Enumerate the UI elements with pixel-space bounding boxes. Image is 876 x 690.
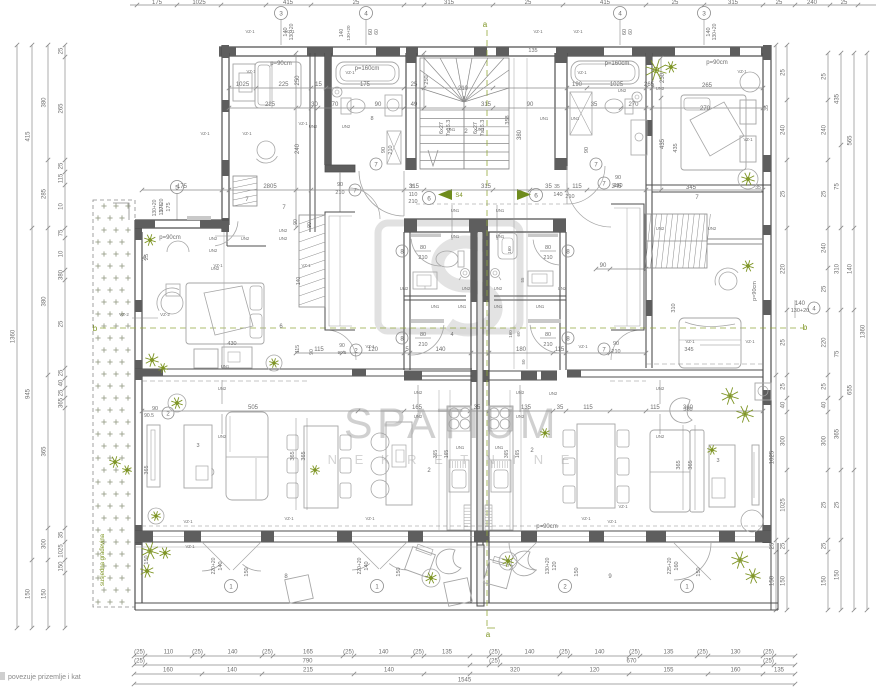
bed left bedroom bbox=[186, 283, 264, 344]
svg-text:90: 90 bbox=[584, 147, 590, 153]
svg-text:25: 25 bbox=[59, 320, 65, 327]
svg-text:UN2: UN2 bbox=[414, 390, 423, 395]
svg-text:165: 165 bbox=[412, 405, 423, 411]
circle 1 mid bbox=[357, 557, 402, 592]
svg-text:25: 25 bbox=[781, 542, 787, 549]
svg-text:210: 210 bbox=[388, 145, 394, 154]
svg-text:UN2: UN2 bbox=[342, 124, 351, 129]
bathtub right bbox=[571, 61, 760, 92]
svg-text:130+20: 130+20 bbox=[545, 557, 551, 574]
svg-text:35: 35 bbox=[474, 405, 481, 411]
svg-text:VZ-1: VZ-1 bbox=[285, 29, 295, 34]
svg-text:210: 210 bbox=[418, 255, 427, 261]
kidney table L bbox=[436, 549, 461, 574]
svg-text:240: 240 bbox=[295, 143, 301, 154]
bathtub left bbox=[336, 62, 399, 84]
svg-text:p=160cm: p=160cm bbox=[605, 61, 630, 67]
upper-left outer wall bbox=[222, 45, 229, 232]
svg-text:25: 25 bbox=[770, 542, 776, 549]
svg-text:25: 25 bbox=[822, 73, 828, 80]
right hall-living wall bbox=[488, 371, 557, 380]
svg-text:VZ-1: VZ-1 bbox=[200, 131, 210, 136]
svg-text:p=90cm: p=90cm bbox=[536, 524, 558, 530]
svg-text:315: 315 bbox=[444, 0, 455, 6]
svg-text:UN2: UN2 bbox=[414, 414, 423, 419]
svg-text:150: 150 bbox=[770, 575, 776, 586]
svg-text:UN2: UN2 bbox=[516, 390, 525, 395]
svg-text:UN2: UN2 bbox=[656, 226, 665, 231]
svg-text:140: 140 bbox=[227, 650, 238, 656]
top axis circle 3 left bbox=[275, 7, 296, 46]
hatched shaft right bbox=[645, 214, 763, 268]
dashed line left bedroom bbox=[142, 380, 310, 382]
axis circle 6 right bbox=[530, 184, 575, 202]
svg-text:p=90cm: p=90cm bbox=[270, 61, 292, 67]
svg-text:VZ-1: VZ-1 bbox=[185, 544, 195, 549]
svg-text:135: 135 bbox=[442, 650, 453, 656]
sink right kitchen bbox=[491, 460, 511, 492]
svg-text:90: 90 bbox=[600, 263, 607, 269]
svg-text:35: 35 bbox=[557, 405, 564, 411]
svg-text:25: 25 bbox=[525, 0, 532, 6]
svg-text:UN2: UN2 bbox=[209, 236, 218, 241]
svg-text:UN2: UN2 bbox=[218, 386, 227, 391]
stove left bbox=[448, 407, 470, 431]
potted plant circled 2 bbox=[422, 569, 440, 587]
section line b bbox=[93, 324, 805, 333]
svg-text:160: 160 bbox=[507, 246, 512, 254]
svg-text:p=90cm: p=90cm bbox=[752, 281, 758, 301]
svg-text:(25): (25) bbox=[192, 650, 203, 656]
svg-text:115: 115 bbox=[295, 345, 301, 353]
svg-text:110: 110 bbox=[164, 650, 174, 656]
svg-text:VZ-1: VZ-1 bbox=[533, 29, 543, 34]
watermark bbox=[328, 223, 577, 467]
svg-text:315: 315 bbox=[481, 184, 492, 190]
svg-text:UN1: UN1 bbox=[536, 304, 545, 309]
lounge chair L3 bbox=[285, 575, 313, 603]
potted plant circled 4 bbox=[738, 169, 758, 189]
svg-text:140: 140 bbox=[218, 561, 224, 570]
circle 2 terrace bbox=[545, 557, 580, 592]
svg-text:165: 165 bbox=[303, 650, 314, 656]
misc rot labels bbox=[245, 25, 543, 41]
right axis 4 circle bbox=[791, 300, 820, 318]
svg-text:UN2: UN2 bbox=[309, 124, 318, 129]
svg-text:380: 380 bbox=[517, 129, 523, 140]
left terrace door arc 2 bbox=[202, 542, 261, 571]
armchair left bedroom bbox=[157, 288, 183, 314]
svg-text:VZ-1: VZ-1 bbox=[284, 516, 294, 521]
svg-text:140: 140 bbox=[795, 301, 806, 307]
svg-text:60: 60 bbox=[516, 331, 521, 337]
svg-text:6: 6 bbox=[427, 196, 431, 203]
svg-text:315: 315 bbox=[728, 0, 739, 6]
basin central left bbox=[413, 272, 437, 289]
svg-text:UN1: UN1 bbox=[476, 127, 485, 132]
thin wall line x224 bbox=[223, 232, 225, 368]
right terrace door arc bbox=[674, 543, 711, 580]
svg-text:315: 315 bbox=[409, 184, 420, 190]
svg-text:UN2: UN2 bbox=[656, 434, 665, 439]
shower central right bbox=[491, 269, 502, 281]
svg-text:365: 365 bbox=[835, 428, 841, 439]
dim row y108 bbox=[227, 102, 765, 110]
vdim 365 right pair bbox=[676, 425, 695, 510]
svg-text:VZ-1: VZ-1 bbox=[743, 137, 753, 142]
sink right bath bbox=[632, 92, 642, 102]
middle terrace door arc bbox=[509, 542, 537, 570]
svg-text:300: 300 bbox=[42, 538, 48, 549]
svg-text:415: 415 bbox=[600, 0, 611, 6]
svg-text:110: 110 bbox=[409, 192, 418, 198]
svg-text:10: 10 bbox=[59, 203, 65, 210]
nightstand bbox=[166, 284, 641, 360]
svg-text:80: 80 bbox=[545, 245, 551, 251]
closet left hall bbox=[325, 212, 355, 330]
svg-text:35: 35 bbox=[764, 105, 770, 111]
neighbouring building hatch bbox=[93, 200, 135, 607]
label p90 right middle bbox=[752, 281, 758, 301]
label p90 right room bbox=[706, 60, 728, 66]
svg-text:270: 270 bbox=[628, 102, 639, 108]
left room dim texts bbox=[0, 0, 1, 1]
circle 2 axis bbox=[144, 406, 174, 419]
svg-text:210: 210 bbox=[543, 342, 552, 348]
svg-text:25: 25 bbox=[781, 383, 787, 390]
svg-text:75: 75 bbox=[835, 350, 841, 357]
svg-text:3: 3 bbox=[279, 11, 283, 18]
svg-text:25: 25 bbox=[822, 285, 828, 292]
stove right bbox=[489, 407, 512, 431]
svg-text:265: 265 bbox=[702, 83, 713, 89]
svg-text:430: 430 bbox=[227, 341, 236, 347]
svg-text:240: 240 bbox=[822, 124, 828, 135]
svg-text:p=160cm: p=160cm bbox=[355, 66, 380, 72]
svg-text:UN2: UN2 bbox=[209, 248, 218, 253]
svg-text:UN2: UN2 bbox=[241, 236, 250, 241]
svg-text:UN2: UN2 bbox=[516, 414, 525, 419]
svg-text:25: 25 bbox=[841, 0, 848, 6]
svg-text:25: 25 bbox=[353, 0, 360, 6]
svg-text:140: 140 bbox=[524, 650, 535, 656]
section line a bbox=[483, 20, 495, 639]
svg-text:30: 30 bbox=[311, 102, 318, 108]
svg-text:a: a bbox=[483, 20, 488, 29]
armchair right middle bbox=[715, 268, 738, 290]
shower central left bbox=[459, 269, 470, 281]
svg-text:120: 120 bbox=[589, 668, 600, 674]
svg-text:25: 25 bbox=[59, 369, 65, 376]
svg-text:b: b bbox=[93, 324, 98, 333]
kidney table right bbox=[670, 398, 693, 423]
svg-text:655: 655 bbox=[848, 384, 854, 395]
bed right middle room bbox=[679, 318, 741, 368]
vdim x424t bbox=[422, 51, 430, 110]
svg-text:VZ-2: VZ-2 bbox=[160, 312, 170, 317]
vdim 365 left pair bbox=[290, 418, 307, 510]
stair dim 380 bbox=[505, 48, 538, 369]
svg-text:135: 135 bbox=[663, 650, 674, 656]
bottom chain 2 bbox=[132, 659, 797, 668]
svg-text:240: 240 bbox=[781, 124, 787, 135]
svg-text:175: 175 bbox=[177, 184, 188, 190]
svg-text:345: 345 bbox=[684, 347, 693, 353]
svg-text:790: 790 bbox=[302, 659, 313, 665]
svg-text:UN1: UN1 bbox=[458, 304, 467, 309]
svg-text:115: 115 bbox=[572, 184, 582, 190]
svg-text:435: 435 bbox=[673, 143, 679, 152]
svg-text:UN1: UN1 bbox=[540, 116, 549, 121]
boiler right bbox=[755, 383, 771, 400]
svg-text:210: 210 bbox=[418, 342, 427, 348]
toilet central left bbox=[436, 251, 464, 267]
svg-text:p=90cm: p=90cm bbox=[159, 235, 181, 241]
svg-text:265: 265 bbox=[59, 103, 65, 114]
circle 2 hall left bbox=[338, 343, 362, 356]
svg-text:220: 220 bbox=[781, 263, 787, 274]
svg-text:225: 225 bbox=[278, 82, 289, 88]
wardrobe left bedroom bbox=[194, 341, 252, 368]
left bedroom-living wall bbox=[135, 369, 472, 376]
svg-text:VZ-1: VZ-1 bbox=[213, 263, 223, 268]
svg-text:1025: 1025 bbox=[236, 82, 250, 88]
circle 7 left bbox=[370, 145, 394, 170]
top axis circle 4 right bbox=[614, 7, 635, 46]
dining chairs left bbox=[287, 435, 351, 498]
circle 7 right bbox=[584, 147, 602, 170]
circle 8 lower left bbox=[396, 332, 454, 348]
svg-text:150: 150 bbox=[835, 569, 841, 580]
svg-text:UN1: UN1 bbox=[431, 304, 440, 309]
dim row y88 bbox=[227, 82, 765, 90]
svg-text:220+20: 220+20 bbox=[211, 557, 217, 574]
svg-text:130+20: 130+20 bbox=[346, 25, 351, 41]
door arc lower right bbox=[528, 319, 561, 353]
right dim chain 4 bbox=[835, 51, 844, 612]
top dimension chain bbox=[130, 0, 876, 7]
right dim chain 5 bbox=[848, 51, 857, 612]
basin central right bbox=[520, 271, 553, 286]
svg-text:250: 250 bbox=[295, 75, 301, 86]
svg-text:4: 4 bbox=[450, 332, 453, 338]
circle 1 right bbox=[667, 557, 702, 592]
svg-text:130+20: 130+20 bbox=[152, 199, 158, 216]
svg-text:300: 300 bbox=[781, 435, 787, 446]
svg-text:25: 25 bbox=[776, 0, 783, 6]
svg-text:140: 140 bbox=[435, 347, 446, 353]
tv board right bbox=[752, 445, 759, 505]
svg-text:150: 150 bbox=[42, 588, 48, 599]
footnote bbox=[0, 672, 81, 681]
svg-text:310: 310 bbox=[835, 263, 841, 274]
svg-text:35: 35 bbox=[755, 185, 761, 191]
svg-text:135: 135 bbox=[528, 48, 537, 54]
svg-text:945: 945 bbox=[26, 388, 32, 399]
right dim chain near wall bbox=[770, 43, 779, 612]
potted plant circled 5 bbox=[148, 508, 164, 524]
svg-text:210: 210 bbox=[611, 349, 620, 355]
party wall bbox=[471, 232, 489, 606]
svg-text:345: 345 bbox=[686, 185, 697, 191]
dining table right bbox=[577, 424, 615, 508]
svg-text:6x27: 6x27 bbox=[439, 122, 445, 134]
svg-text:210: 210 bbox=[458, 86, 469, 92]
plants bbox=[109, 59, 760, 583]
terrace edge walls bbox=[135, 543, 778, 610]
sink left kitchen bbox=[449, 460, 469, 492]
svg-text:565: 565 bbox=[848, 135, 854, 146]
svg-text:380: 380 bbox=[42, 296, 48, 307]
svg-text:N E K R E T N I N E: N E K R E T N I N E bbox=[328, 452, 577, 467]
svg-text:UN1: UN1 bbox=[456, 445, 465, 450]
right outer wall bbox=[763, 45, 771, 543]
svg-text:140: 140 bbox=[364, 561, 370, 570]
svg-text:a: a bbox=[486, 630, 491, 639]
svg-text:250: 250 bbox=[660, 72, 666, 83]
svg-text:415: 415 bbox=[283, 0, 294, 6]
svg-text:susjedna građevina: susjedna građevina bbox=[100, 533, 106, 586]
svg-text:435: 435 bbox=[835, 93, 841, 104]
axis circle 6 left bbox=[408, 184, 435, 205]
svg-text:VZ-1: VZ-1 bbox=[245, 29, 255, 34]
kitchen counter left bbox=[447, 406, 471, 530]
svg-text:75: 75 bbox=[835, 183, 841, 190]
svg-text:70: 70 bbox=[332, 102, 339, 108]
door arc lower left bbox=[411, 319, 444, 355]
svg-text:150: 150 bbox=[144, 555, 150, 564]
svg-text:150: 150 bbox=[696, 567, 702, 576]
svg-text:90: 90 bbox=[375, 102, 382, 108]
circle 8 lower right bbox=[540, 332, 574, 348]
vdim 365 kitchens bbox=[433, 390, 521, 530]
hatched shaft left bbox=[299, 215, 325, 307]
dining table left bbox=[304, 426, 338, 508]
svg-text:VZ-1: VZ-1 bbox=[301, 263, 311, 268]
stairwell right wall bbox=[555, 53, 567, 170]
svg-text:40: 40 bbox=[781, 401, 787, 408]
svg-text:35: 35 bbox=[554, 184, 560, 190]
south wall with windows bbox=[135, 531, 771, 542]
kitchen island left bbox=[386, 422, 412, 505]
right dim chain near wall 2 bbox=[781, 43, 790, 612]
toilet right bath bbox=[605, 99, 633, 114]
svg-text:115: 115 bbox=[314, 347, 324, 353]
bed top-left bbox=[255, 62, 301, 108]
svg-text:365: 365 bbox=[433, 450, 439, 459]
sofa right bbox=[650, 430, 704, 512]
svg-text:140: 140 bbox=[227, 668, 238, 674]
svg-text:(25): (25) bbox=[697, 650, 708, 656]
top axis circle 3 right bbox=[698, 7, 719, 46]
svg-text:UN2: UN2 bbox=[618, 88, 627, 93]
svg-text:VZ-1: VZ-1 bbox=[745, 339, 755, 344]
svg-text:2805: 2805 bbox=[263, 184, 277, 190]
svg-text:40: 40 bbox=[59, 379, 65, 386]
potted plant circled 3 bbox=[499, 552, 517, 570]
label p90 left room bbox=[270, 61, 292, 67]
svg-text:UN2: UN2 bbox=[218, 434, 227, 439]
dim row y269 bbox=[594, 263, 648, 271]
svg-text:365: 365 bbox=[42, 446, 48, 457]
wardrobe right bedroom bbox=[740, 100, 756, 162]
svg-text:1360: 1360 bbox=[861, 324, 867, 338]
dining chairs right bbox=[563, 430, 629, 503]
svg-text:358: 358 bbox=[505, 115, 511, 124]
left dimension chain total 1360 bbox=[11, 43, 20, 630]
svg-text:135: 135 bbox=[774, 668, 785, 674]
left terrace door arc bbox=[352, 542, 407, 570]
svg-text:80: 80 bbox=[420, 245, 426, 251]
svg-text:90: 90 bbox=[381, 147, 387, 153]
vdim x163 rot bbox=[152, 199, 165, 216]
circle 7 axis right bbox=[0, 0, 1, 1]
svg-text:6: 6 bbox=[534, 193, 538, 200]
svg-text:35: 35 bbox=[59, 531, 65, 538]
svg-text:(25): (25) bbox=[763, 659, 774, 665]
svg-text:165: 165 bbox=[515, 450, 521, 459]
corner shaft left bedroom bbox=[215, 176, 266, 246]
vdim roww bbox=[0, 0, 1, 1]
svg-text:p=90cm: p=90cm bbox=[706, 60, 728, 66]
circle 8 upper right bbox=[540, 245, 574, 261]
washer left bath bbox=[385, 95, 402, 116]
svg-text:75: 75 bbox=[59, 229, 65, 236]
svg-text:175: 175 bbox=[152, 0, 163, 6]
svg-text:VZ-1: VZ-1 bbox=[242, 131, 252, 136]
svg-text:(25): (25) bbox=[559, 650, 570, 656]
svg-text:90: 90 bbox=[527, 102, 534, 108]
svg-text:505: 505 bbox=[248, 405, 259, 411]
wall under stair landing bbox=[404, 219, 566, 232]
svg-text:435: 435 bbox=[660, 138, 666, 149]
svg-text:UN2: UN2 bbox=[400, 286, 409, 291]
right dim chain 3 bbox=[822, 51, 831, 612]
svg-text:(25): (25) bbox=[629, 650, 640, 656]
svg-text:25: 25 bbox=[822, 190, 828, 197]
svg-text:150: 150 bbox=[396, 567, 402, 576]
section marker S4 right bbox=[517, 189, 531, 200]
svg-text:25: 25 bbox=[781, 69, 787, 76]
svg-text:240: 240 bbox=[822, 242, 828, 253]
right middle wall bbox=[646, 192, 652, 368]
svg-text:130: 130 bbox=[730, 650, 741, 656]
potted plant circled 1 bbox=[168, 394, 186, 412]
door arc right stair bbox=[567, 166, 605, 204]
kitchen hatch left bbox=[464, 505, 471, 530]
right bathroom-bedroom wall bbox=[646, 53, 652, 192]
svg-text:1025: 1025 bbox=[781, 498, 787, 512]
svg-text:315: 315 bbox=[481, 102, 492, 108]
svg-text:3: 3 bbox=[196, 443, 199, 449]
top outer wall bbox=[219, 47, 771, 56]
wardrobe top-left bbox=[233, 64, 256, 101]
shower left bath bbox=[370, 116, 401, 164]
svg-text:35: 35 bbox=[545, 184, 552, 190]
svg-text:670: 670 bbox=[626, 659, 637, 665]
circle 7 hall right bbox=[567, 175, 623, 227]
kitchen hatch right bbox=[485, 505, 492, 530]
svg-text:365: 365 bbox=[59, 397, 65, 408]
sofa left bbox=[226, 412, 268, 500]
svg-text:(25): (25) bbox=[134, 659, 145, 665]
svg-text:1360: 1360 bbox=[11, 329, 17, 343]
svg-text:240: 240 bbox=[807, 0, 818, 6]
svg-text:150: 150 bbox=[822, 575, 828, 586]
svg-text:135: 135 bbox=[521, 405, 532, 411]
svg-text:UN2: UN2 bbox=[708, 226, 717, 231]
svg-text:115: 115 bbox=[583, 405, 593, 411]
